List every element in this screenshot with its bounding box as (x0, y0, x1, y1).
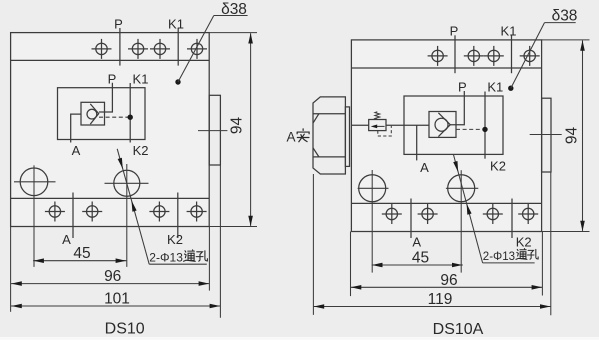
DS10A hex facet line upper (313, 113, 345, 115)
DS10A through-hole leader arrow (467, 204, 472, 215)
svg-text:K1: K1 (133, 71, 149, 86)
DS10A left extension line (hex edge) (312, 174, 314, 315)
DS10 bracket edge extension line (219, 165, 221, 318)
DS10 top flange K1 divider (177, 28, 179, 66)
DS10A bracket edge extension line (550, 172, 552, 315)
DS10 dimension 45 line (33, 260, 126, 262)
DS10A large hole A (359, 175, 386, 202)
DS10 top flange hole 1 (92, 39, 112, 59)
svg-text:101: 101 (104, 291, 130, 308)
DS10A large hole A horizontal centerline (358, 187, 389, 189)
DS10A hex chamfer upper (313, 114, 319, 123)
DS10 top flange line (11, 59, 210, 61)
DS10 bottom flange A divider (72, 193, 74, 239)
svg-text:K1: K1 (487, 79, 503, 94)
DS10A bottom edge extension for 94 dim (542, 231, 590, 233)
svg-text:K2: K2 (133, 143, 149, 158)
svg-text:K2: K2 (490, 159, 506, 174)
DS10 top flange P divider (119, 28, 121, 66)
DS10 check valve seat (90, 104, 98, 124)
DS10 pilot dashed line (99, 116, 129, 118)
DS10 bottom flange hole 3 (149, 202, 169, 222)
svg-text:45: 45 (412, 249, 429, 266)
DS10A body outline (351, 40, 541, 232)
DS10A leader line K2/through-hole (454, 155, 483, 263)
DS10A side plate centerline tick (530, 134, 562, 136)
DS10A top flange hole 2 (464, 46, 484, 66)
DS10A bottom flange line (351, 202, 541, 204)
DS10 body outline (11, 33, 210, 227)
DS10 bottom flange hole 1 (45, 202, 65, 222)
DS10A side plate bracket (542, 98, 551, 172)
svg-text:94: 94 (229, 117, 246, 135)
DS10 through-hole leader underline (149, 263, 207, 265)
DS10A through-hole leader underline (483, 262, 535, 264)
DS10A top flange P divider (454, 35, 456, 73)
DS10 check valve ball (87, 109, 97, 119)
DS10A bottom flange A divider (410, 199, 412, 239)
svg-text:DS10: DS10 (105, 320, 145, 337)
DS10A bottom flange hole 2 (418, 204, 438, 224)
DS10 node on K line (128, 115, 133, 120)
svg-text:119: 119 (428, 291, 453, 308)
DS10A plate thickness callout δ38 (508, 86, 513, 91)
DS10 plate thickness callout δ38 (175, 79, 180, 84)
DS10A check valve seat (438, 113, 450, 137)
DS10 large hole K2 (114, 170, 140, 196)
DS10A relief valve box (369, 120, 386, 131)
svg-text:K2: K2 (516, 234, 532, 249)
svg-text:δ38: δ38 (221, 1, 247, 18)
DS10A top edge extension for 94 dim (542, 39, 590, 41)
DS10A relief valve spring (375, 112, 380, 120)
DS10 top flange hole 2 (128, 39, 148, 59)
DS10A leader arrow K2 to hole (453, 161, 458, 172)
DS10A dimension 96 line (351, 286, 543, 288)
DS10 side plate centerline tick (198, 130, 227, 132)
svg-text:P: P (458, 79, 467, 94)
DS10A top flange line (351, 67, 541, 69)
DS10A large hole K2 horizontal centerline (446, 187, 478, 189)
DS10A check valve ball (435, 118, 448, 131)
DS10 leader line K2/through-hole (117, 149, 149, 264)
DS10A body right extension line (541, 232, 543, 296)
DS10 check valve square (81, 102, 105, 125)
DS10 height dimension 94 line (250, 33, 252, 226)
DS10 top flange hole 4 (K1) (187, 39, 207, 59)
DS10 large hole K2 vertical centerline / 45 extension (126, 164, 128, 267)
DS10A port line K1-K2 (484, 92, 486, 159)
DS10A dimension 119 line (313, 306, 550, 308)
DS10A main A line right segment (386, 124, 429, 126)
DS10A large hole K2 vertical centerline / 45 extension (460, 170, 462, 272)
DS10 dimension 96 line (11, 283, 209, 285)
DS10 top edge extension for 94 dim (209, 32, 257, 34)
DS10A top flange hole 4 (K1) (520, 46, 540, 66)
DS10A top flange K1 divider (511, 35, 513, 73)
DS10A large hole A vertical centerline / 45 extension (371, 170, 373, 273)
DS10 side plate bracket (209, 95, 220, 165)
DS10 port line A (71, 114, 81, 142)
svg-text:94: 94 (564, 127, 581, 145)
DS10 right body extension line (208, 227, 210, 291)
DS10A dimension 45 line (372, 264, 463, 266)
DS10A node on K line (482, 127, 487, 132)
DS10 bottom edge extension for 94 dim (209, 226, 257, 228)
DS10 large hole A horizontal centerline (14, 181, 56, 183)
DS10A main A line left segment (351, 124, 368, 126)
svg-text:A: A (420, 160, 429, 175)
svg-text:A: A (62, 232, 71, 247)
svg-text:DS10A: DS10A (433, 321, 484, 338)
DS10 large hole A (20, 168, 48, 196)
DS10A bottom flange hole 4 (518, 204, 538, 224)
DS10A bottom flange hole 3 (483, 204, 503, 224)
DS10A top flange hole 1 (428, 46, 448, 66)
DS10A hex plug fitting (313, 97, 345, 174)
DS10A bottom flange hole 1 (382, 204, 402, 224)
DS10 leader arrow K2 to hole (118, 158, 123, 169)
DS10A port line P (451, 91, 465, 125)
svg-text:45: 45 (73, 245, 90, 262)
DS10 dimension 101 line (11, 305, 220, 307)
DS10A relief valve arrow (375, 125, 385, 127)
DS10 top flange hole 3 (150, 39, 170, 59)
DS10A body left extension line (350, 232, 352, 297)
DS10 large hole K2 horizontal centerline (105, 182, 149, 184)
DS10A schematic inner rectangle (404, 96, 503, 154)
DS10 bottom flange hole 4 (187, 202, 207, 222)
DS10A port line A drop (416, 125, 418, 160)
svg-text:96: 96 (104, 268, 121, 285)
DS10A height dimension 94 line (582, 41, 584, 231)
svg-text:K2: K2 (167, 232, 183, 247)
svg-text:δ38: δ38 (552, 8, 578, 25)
DS10 port line P (99, 83, 113, 112)
DS10A relief valve drain dashed (378, 126, 392, 136)
DS10A check valve square (429, 112, 456, 138)
DS10 schematic inner rectangle (58, 88, 146, 140)
DS10A hex chamfer lower (313, 148, 319, 157)
svg-text:A: A (72, 143, 81, 158)
DS10 bottom flange K2 divider (177, 193, 179, 239)
DS10A hex neck (345, 107, 349, 166)
svg-text:K1: K1 (501, 24, 517, 39)
svg-text:2-Φ13: 2-Φ13 (149, 250, 183, 264)
svg-text:2-Φ13: 2-Φ13 (483, 251, 515, 263)
DS10 bottom flange line (11, 197, 210, 199)
svg-text:96: 96 (440, 272, 457, 289)
DS10 bottom flange hole 2 (82, 202, 102, 222)
DS10 large hole A vertical centerline / 45 extension (33, 165, 35, 267)
svg-text:P: P (450, 23, 459, 38)
DS10A top flange hole 3 (484, 46, 504, 66)
DS10A pilot dashed line (456, 128, 484, 130)
svg-text:K1: K1 (168, 16, 184, 31)
svg-text:A: A (286, 130, 295, 145)
DS10A bottom flange K2 divider (511, 199, 513, 239)
svg-text:P: P (114, 16, 123, 31)
svg-text:A: A (412, 234, 421, 249)
svg-text:P: P (108, 71, 117, 86)
DS10 port line K1-K2 (129, 83, 131, 143)
DS10 left extension line (10, 227, 12, 312)
DS10A large hole K2 (448, 175, 475, 202)
DS10A hex facet line lower (313, 156, 345, 158)
DS10 through-hole leader arrow (132, 201, 137, 212)
